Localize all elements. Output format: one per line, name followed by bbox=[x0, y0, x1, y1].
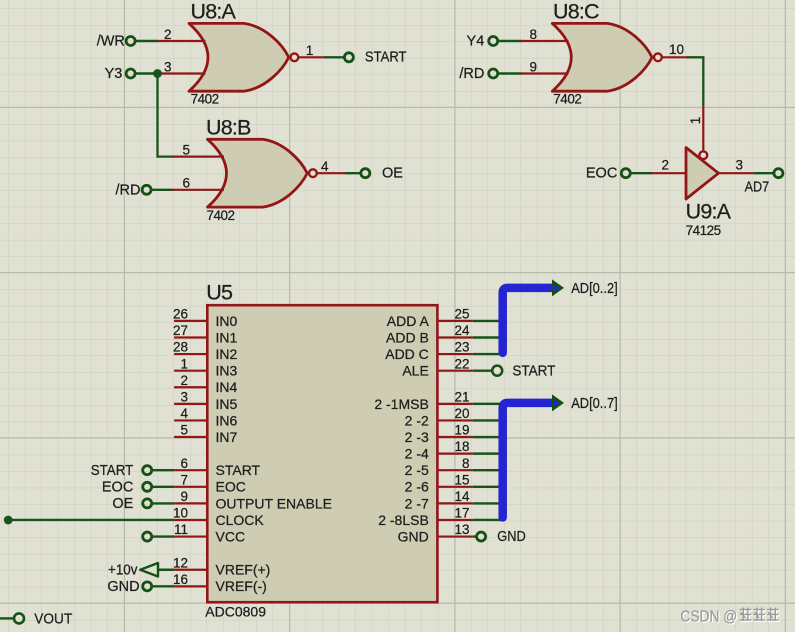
tri-state buffer U9:A bbox=[686, 148, 719, 200]
svg-text:ALE: ALE bbox=[402, 363, 428, 379]
pin 26 of U5 (IN0) bbox=[173, 307, 238, 329]
pin 1 of U9:A (enable, vertical) bbox=[688, 106, 703, 150]
NOR gate U8:A bbox=[189, 23, 298, 91]
pin 10 of U5 (CLOCK) bbox=[173, 506, 264, 528]
node dot on CLOCK wire at left edge bbox=[4, 516, 13, 525]
terminal Y4 bbox=[467, 34, 498, 50]
wire U8:A output to START terminal bbox=[323, 56, 344, 58]
svg-text:2 -3: 2 -3 bbox=[405, 429, 429, 445]
svg-text:IN6: IN6 bbox=[216, 412, 238, 428]
NOR gate U8:B bbox=[208, 139, 317, 207]
pin 6 of U5 (START) bbox=[174, 456, 260, 478]
pin 3 of U8:A bbox=[162, 59, 206, 74]
svg-text:OE: OE bbox=[112, 496, 133, 512]
svg-text:18: 18 bbox=[454, 439, 469, 454]
svg-text:9: 9 bbox=[529, 59, 537, 74]
svg-text:2: 2 bbox=[661, 158, 669, 173]
wire OE terminal to pin 9 bbox=[152, 502, 174, 504]
terminal START (chip input) bbox=[91, 463, 152, 479]
svg-text:VOUT: VOUT bbox=[34, 611, 72, 628]
svg-text:IN4: IN4 bbox=[216, 379, 238, 395]
wire pin row 6 to bus AD[0..7] bbox=[473, 419, 506, 421]
terminal START (right) bbox=[492, 363, 555, 379]
svg-text:/WR: /WR bbox=[97, 34, 125, 50]
svg-text:14: 14 bbox=[454, 489, 470, 504]
svg-text:19: 19 bbox=[454, 423, 469, 438]
svg-text:28: 28 bbox=[173, 340, 188, 355]
pin 5 of U5 (IN7) bbox=[174, 423, 237, 445]
terminal /WR bbox=[97, 34, 135, 50]
wire U8:B output to OE terminal bbox=[345, 172, 361, 174]
svg-text:5: 5 bbox=[180, 423, 188, 438]
svg-text:11: 11 bbox=[174, 522, 188, 537]
svg-text:IN0: IN0 bbox=[216, 313, 238, 329]
pin 3 of U9:A (output) bbox=[719, 158, 754, 174]
svg-text:23: 23 bbox=[454, 340, 469, 355]
svg-text:13: 13 bbox=[454, 522, 469, 537]
svg-text:8: 8 bbox=[529, 27, 537, 42]
svg-text:U8:C: U8:C bbox=[553, 0, 599, 24]
pin 8 of U8:C bbox=[521, 27, 569, 42]
svg-text:ADD B: ADD B bbox=[386, 329, 429, 345]
node junction on Y3 wire bbox=[153, 69, 162, 78]
svg-text:IN3: IN3 bbox=[216, 363, 238, 379]
pin 6 of U8:B bbox=[172, 176, 224, 191]
pin 9 of U5 (OUTPUT ENABLE) bbox=[174, 489, 332, 511]
watermark CSDN bbox=[680, 608, 779, 627]
pin 20 of U5 (2 -2) bbox=[405, 406, 473, 428]
terminal Y3 bbox=[105, 66, 135, 82]
svg-text:OUTPUT ENABLE: OUTPUT ENABLE bbox=[216, 495, 332, 511]
svg-text:U5: U5 bbox=[206, 280, 233, 304]
svg-text:6: 6 bbox=[182, 176, 190, 191]
terminal OE bbox=[361, 166, 403, 182]
pin 12 of U5 (VREF(+)) bbox=[173, 555, 270, 577]
svg-text:3: 3 bbox=[180, 389, 188, 404]
wire Y3 terminal to junction bbox=[135, 72, 158, 74]
svg-text:U8:B: U8:B bbox=[206, 116, 251, 140]
svg-text:VREF(+): VREF(+) bbox=[216, 562, 271, 578]
svg-text:4: 4 bbox=[180, 406, 188, 421]
svg-text:START: START bbox=[365, 49, 407, 65]
wire EOC terminal to pin 7 bbox=[152, 486, 174, 488]
wire START terminal to pin 6 bbox=[152, 469, 174, 471]
terminal START (U8:A output) bbox=[344, 49, 406, 65]
pin 18 of U5 (2 -4) bbox=[405, 439, 473, 461]
svg-text:8: 8 bbox=[462, 456, 470, 471]
svg-text:7402: 7402 bbox=[207, 208, 235, 223]
svg-text:2 -1MSB: 2 -1MSB bbox=[374, 396, 428, 412]
svg-text:15: 15 bbox=[454, 472, 469, 487]
wire EOC terminal to pin 2 of U9:A bbox=[630, 172, 652, 174]
wire /WR terminal to pin 2 of U8:A bbox=[135, 40, 158, 42]
svg-text:+10v: +10v bbox=[108, 562, 138, 578]
bus AD[0..7] bbox=[503, 403, 553, 518]
svg-text:3: 3 bbox=[164, 59, 172, 74]
svg-text:1: 1 bbox=[688, 117, 703, 125]
svg-text:20: 20 bbox=[454, 406, 469, 421]
svg-text:2 -6: 2 -6 bbox=[405, 479, 429, 495]
svg-text:1: 1 bbox=[306, 43, 314, 58]
pin 3 of U5 (IN5) bbox=[174, 389, 237, 411]
svg-text:3: 3 bbox=[735, 158, 743, 173]
svg-text:GND: GND bbox=[107, 579, 139, 595]
wire VOUT stub from left edge bbox=[0, 617, 14, 619]
pin 9 of U8:C bbox=[521, 59, 569, 74]
pin 2 of U9:A bbox=[652, 158, 687, 174]
svg-text:IN1: IN1 bbox=[216, 329, 238, 345]
svg-text:ADD A: ADD A bbox=[387, 313, 430, 329]
terminal GND (right) bbox=[477, 529, 526, 545]
wire junction down to U8:B pin 5 bbox=[158, 74, 174, 157]
svg-text:2 -2: 2 -2 bbox=[405, 412, 429, 428]
svg-text:2 -7: 2 -7 bbox=[405, 495, 429, 511]
terminal AD7 bbox=[745, 169, 783, 196]
terminal EOC (U9:A input) bbox=[586, 166, 630, 182]
pin 13 of U5 (GND) bbox=[398, 522, 473, 544]
pin 4 of U8:B (output) bbox=[317, 159, 345, 174]
svg-text:1: 1 bbox=[180, 356, 188, 371]
pin 2 of U8:A bbox=[157, 27, 205, 42]
svg-text:AD7: AD7 bbox=[745, 180, 770, 196]
pin 7 of U5 (EOC) bbox=[174, 472, 246, 494]
svg-text:/RD: /RD bbox=[116, 182, 141, 198]
svg-text:7402: 7402 bbox=[553, 92, 581, 107]
IC U5 ADC0809 body bbox=[207, 305, 437, 602]
svg-text:Y3: Y3 bbox=[105, 66, 123, 82]
NOR gate U8:C bbox=[552, 23, 662, 91]
wire pin row 9 to bus AD[0..7] bbox=[473, 469, 506, 471]
bus arrow AD[0..2] bbox=[552, 279, 564, 296]
svg-text:GND: GND bbox=[398, 528, 429, 544]
svg-text:17: 17 bbox=[454, 506, 469, 521]
pin 19 of U5 (2 -3) bbox=[405, 423, 473, 445]
wire Y4 terminal to pin 8 bbox=[498, 40, 522, 42]
wire pin 25 to bus AD[0..2] bbox=[473, 320, 506, 322]
wire pin row 7 to bus AD[0..7] bbox=[473, 436, 506, 438]
svg-text:7402: 7402 bbox=[191, 92, 219, 107]
svg-text:GND: GND bbox=[497, 529, 526, 545]
pin 5 of U8:B bbox=[172, 142, 224, 157]
svg-text:Y4: Y4 bbox=[467, 34, 485, 50]
svg-text:25: 25 bbox=[454, 307, 469, 322]
pin 28 of U5 (IN2) bbox=[173, 340, 238, 362]
svg-text:4: 4 bbox=[321, 159, 329, 174]
svg-text:CLOCK: CLOCK bbox=[216, 512, 265, 528]
terminal /RD (U8:B input) bbox=[116, 182, 152, 198]
svg-text:U9:A: U9:A bbox=[686, 199, 732, 223]
pin 24 of U5 (ADD B) bbox=[386, 323, 473, 345]
wire U9:A output to AD7 terminal bbox=[753, 172, 774, 174]
wire VCC terminal to pin 11 bbox=[152, 535, 174, 537]
wire U8:C output elbow down to U9:A enable bbox=[687, 57, 704, 106]
svg-text:VCC: VCC bbox=[216, 528, 246, 544]
pin 4 of U5 (IN6) bbox=[174, 406, 237, 428]
pin 22 of U5 (ALE) bbox=[402, 356, 472, 378]
wire ALE pin 22 to START terminal bbox=[473, 369, 493, 371]
wire pin row 11 to bus AD[0..7] bbox=[473, 502, 506, 504]
svg-text:12: 12 bbox=[173, 555, 188, 570]
wire pin 23 to bus AD[0..2] bbox=[473, 353, 506, 355]
svg-text:9: 9 bbox=[180, 489, 188, 504]
svg-text:START: START bbox=[91, 463, 134, 479]
pin 15 of U5 (2 -6) bbox=[405, 472, 473, 494]
svg-text:26: 26 bbox=[173, 307, 188, 322]
svg-text:U8:A: U8:A bbox=[191, 0, 237, 24]
pin 23 of U5 (ADD C) bbox=[385, 340, 472, 362]
svg-text:EOC: EOC bbox=[586, 166, 617, 182]
svg-text:2 -8LSB: 2 -8LSB bbox=[378, 512, 429, 528]
pin 10 of U8:C (output) bbox=[662, 42, 687, 57]
wire /RD terminal to pin 6 of U8:B bbox=[151, 189, 173, 191]
pin 11 of U5 (VCC) bbox=[174, 522, 245, 544]
pin 25 of U5 (ADD A) bbox=[387, 307, 473, 329]
svg-text:74125: 74125 bbox=[686, 223, 721, 238]
svg-text:6: 6 bbox=[180, 456, 188, 471]
svg-text:EOC: EOC bbox=[216, 479, 246, 495]
pin 16 of U5 (VREF(-)) bbox=[173, 572, 267, 594]
svg-text:2: 2 bbox=[164, 27, 172, 42]
svg-text:START: START bbox=[512, 363, 555, 379]
terminal OE (chip input) bbox=[112, 496, 151, 512]
svg-text:OE: OE bbox=[382, 166, 403, 182]
svg-text:ADD C: ADD C bbox=[385, 346, 429, 362]
svg-text:AD[0..2]: AD[0..2] bbox=[571, 281, 618, 297]
wire pin row 10 to bus AD[0..7] bbox=[473, 486, 506, 488]
wire /RD terminal to pin 9 bbox=[498, 72, 522, 74]
wire pin row 12 to bus AD[0..7] bbox=[473, 519, 506, 521]
svg-text:5: 5 bbox=[182, 142, 190, 157]
terminal VCC (unlabeled) bbox=[143, 532, 152, 541]
wire pin row 8 to bus AD[0..7] bbox=[473, 452, 506, 454]
pin 14 of U5 (2 -7) bbox=[405, 489, 473, 511]
svg-text:ADC0809: ADC0809 bbox=[205, 604, 266, 620]
wire CLOCK from left edge to pin 10 bbox=[8, 519, 174, 521]
svg-text:IN2: IN2 bbox=[216, 346, 238, 362]
wire +10v arrow to pin 12 bbox=[158, 569, 174, 571]
svg-text:2: 2 bbox=[180, 373, 188, 388]
svg-text:22: 22 bbox=[454, 356, 469, 371]
wire pin 24 to bus AD[0..2] bbox=[473, 336, 506, 338]
pin 27 of U5 (IN1) bbox=[173, 323, 238, 345]
pin 8 of U5 (2 -5) bbox=[405, 456, 473, 478]
svg-text:24: 24 bbox=[454, 323, 470, 338]
pin 17 of U5 (2 -8LSB) bbox=[378, 506, 472, 528]
pin 1 of U5 (IN3) bbox=[174, 356, 237, 378]
svg-text:/RD: /RD bbox=[459, 66, 484, 82]
svg-text:10: 10 bbox=[173, 506, 188, 521]
svg-text:IN5: IN5 bbox=[216, 396, 238, 412]
terminal VOUT bbox=[14, 611, 72, 628]
terminal GND (left) bbox=[107, 579, 151, 595]
power terminal +10v arrow bbox=[108, 562, 158, 578]
svg-text:IN7: IN7 bbox=[216, 429, 238, 445]
pin 21 of U5 (2 -1MSB) bbox=[374, 389, 472, 411]
svg-text:10: 10 bbox=[669, 42, 684, 57]
bus AD[0..2] bbox=[503, 288, 553, 353]
svg-text:CSDN @: CSDN @ bbox=[680, 608, 737, 625]
svg-text:27: 27 bbox=[173, 323, 188, 338]
svg-text:AD[0..7]: AD[0..7] bbox=[571, 396, 618, 412]
svg-text:16: 16 bbox=[173, 572, 188, 587]
svg-text:7: 7 bbox=[180, 472, 188, 487]
terminal /RD (U8:C input) bbox=[459, 66, 497, 82]
svg-text:EOC: EOC bbox=[102, 480, 133, 496]
svg-text:VREF(-): VREF(-) bbox=[216, 578, 267, 594]
svg-text:START: START bbox=[216, 462, 261, 478]
wire pin 21 to bus AD[0..7] bbox=[473, 403, 500, 405]
svg-text:2 -5: 2 -5 bbox=[405, 462, 429, 478]
terminal EOC (chip input) bbox=[102, 480, 152, 496]
wire GND pin 13 to GND terminal bbox=[473, 535, 477, 537]
svg-text:2 -4: 2 -4 bbox=[405, 446, 429, 462]
svg-text:21: 21 bbox=[454, 389, 469, 404]
pin 2 of U5 (IN4) bbox=[174, 373, 237, 395]
bus arrow AD[0..7] bbox=[552, 394, 564, 411]
wire GND terminal to pin 16 bbox=[152, 585, 174, 587]
pin 1 of U8:A (output) bbox=[299, 43, 324, 58]
